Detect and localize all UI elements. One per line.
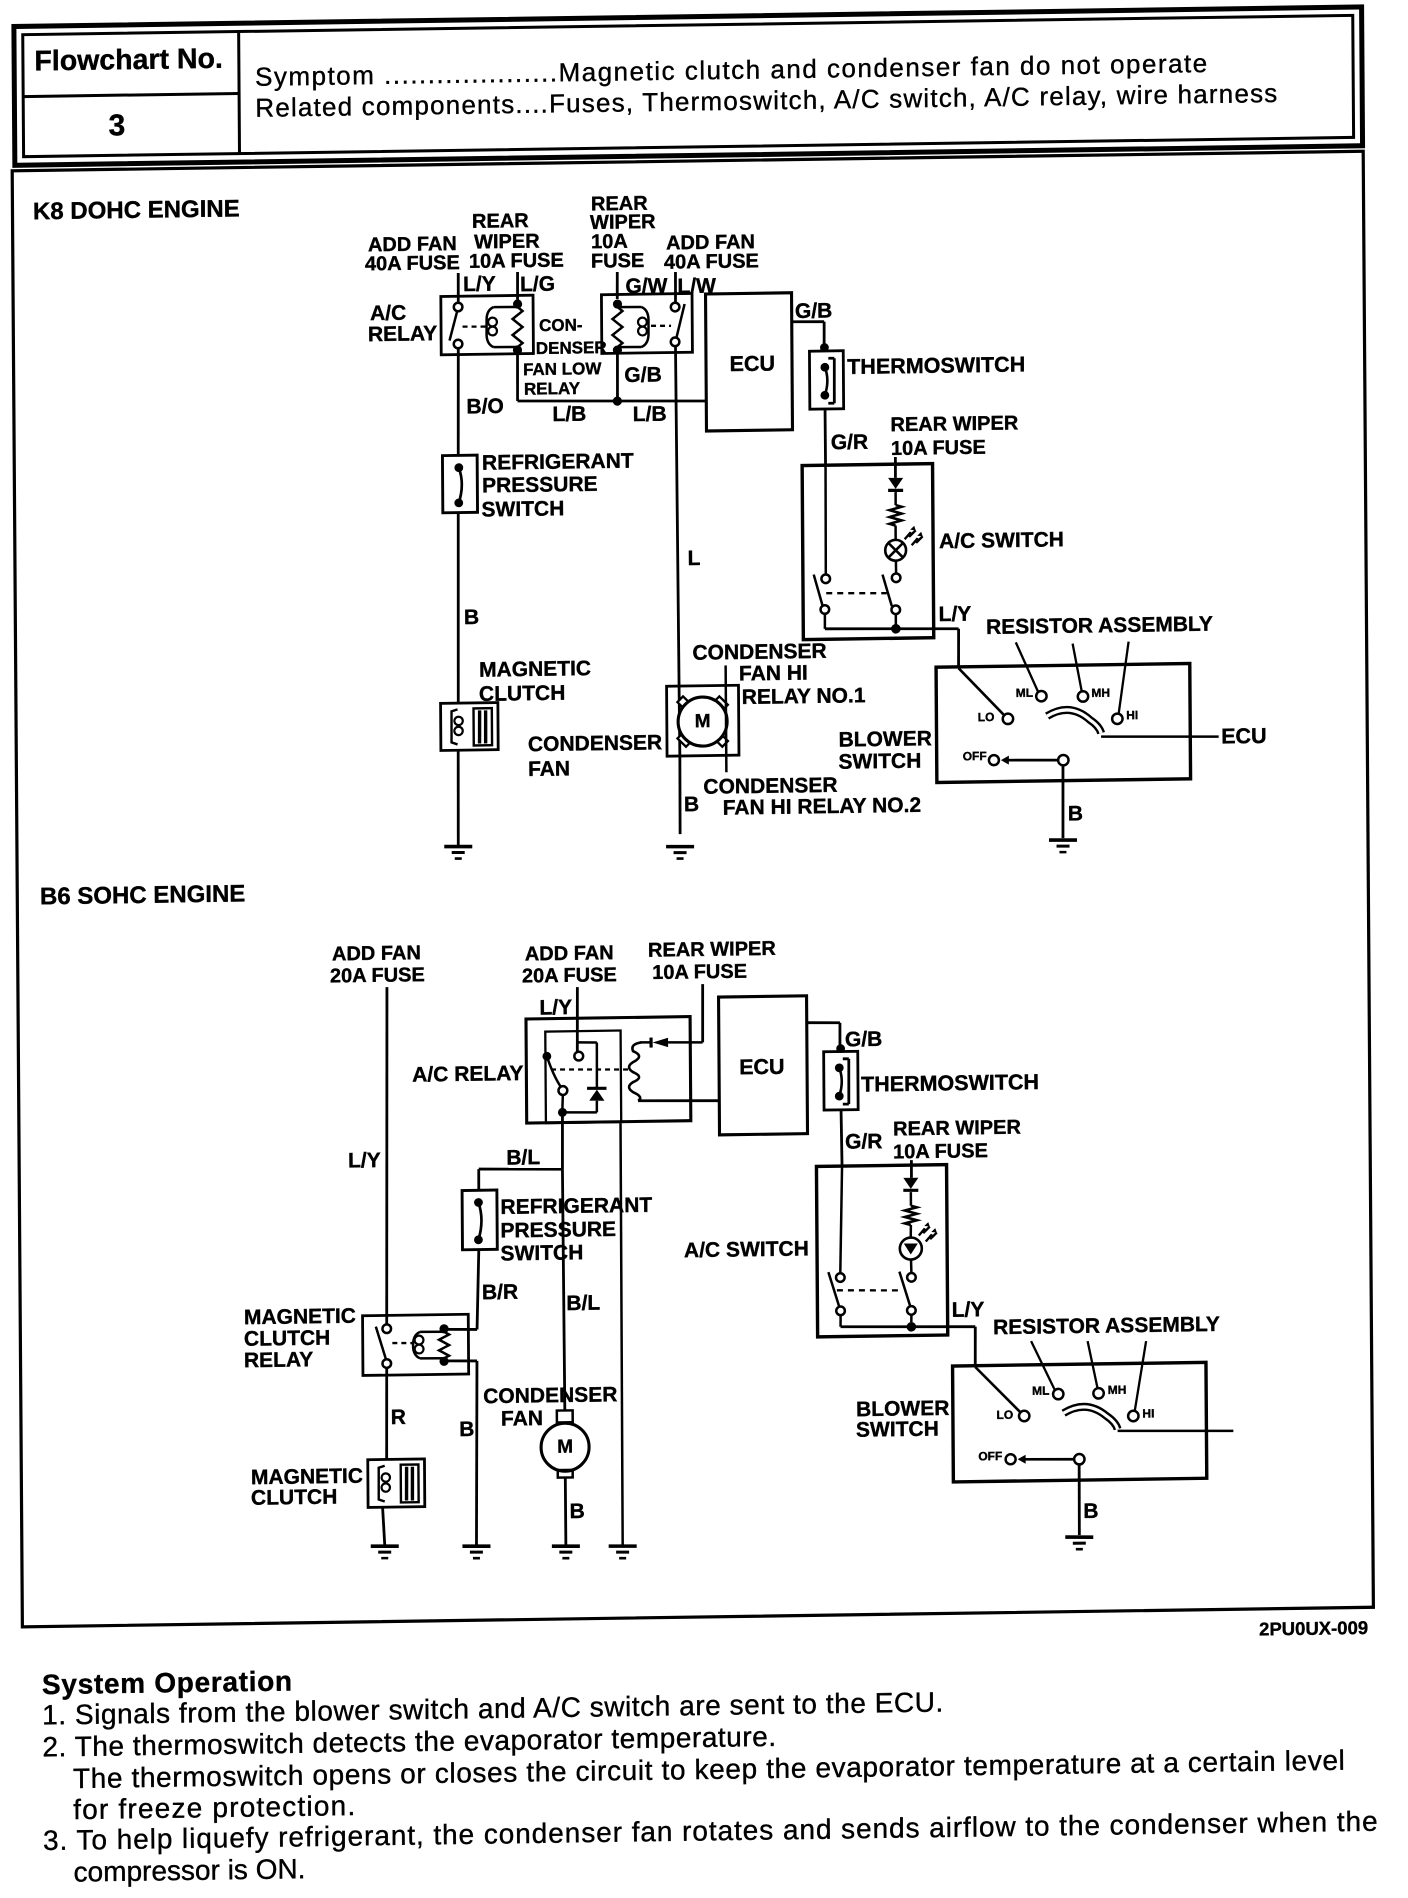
svg-text:FAN: FAN	[501, 1407, 543, 1431]
svg-text:ML: ML	[1032, 1384, 1049, 1398]
svg-text:A/C: A/C	[370, 302, 406, 326]
svg-text:20A FUSE: 20A FUSE	[522, 964, 617, 987]
svg-text:THERMOSWITCH: THERMOSWITCH	[861, 1070, 1039, 1097]
svg-text:ADD FAN: ADD FAN	[332, 942, 421, 965]
svg-text:PRESSURE: PRESSURE	[500, 1218, 616, 1243]
svg-text:L/B: L/B	[633, 403, 667, 426]
svg-text:CON-: CON-	[539, 315, 583, 335]
svg-text:Flowchart No.: Flowchart No.	[34, 43, 223, 78]
svg-text:G/B: G/B	[795, 299, 833, 323]
svg-text:10A FUSE: 10A FUSE	[893, 1140, 988, 1163]
svg-text:SWITCH: SWITCH	[500, 1241, 583, 1265]
svg-text:DENSER: DENSER	[536, 338, 607, 358]
svg-text:ECU: ECU	[1221, 724, 1267, 749]
svg-text:FAN: FAN	[528, 757, 570, 781]
svg-text:G/B: G/B	[624, 363, 662, 387]
svg-text:L/Y: L/Y	[939, 603, 972, 626]
svg-text:10A FUSE: 10A FUSE	[652, 961, 747, 984]
svg-text:THERMOSWITCH: THERMOSWITCH	[847, 352, 1025, 379]
svg-text:L/Y: L/Y	[539, 996, 572, 1019]
svg-text:FAN HI RELAY NO.2: FAN HI RELAY NO.2	[723, 794, 922, 820]
svg-text:HI: HI	[1142, 1406, 1154, 1420]
svg-text:REAR WIPER: REAR WIPER	[648, 938, 776, 962]
svg-text:FAN HI: FAN HI	[739, 662, 808, 686]
svg-text:RESISTOR ASSEMBLY: RESISTOR ASSEMBLY	[986, 613, 1213, 639]
svg-text:RESISTOR ASSEMBLY: RESISTOR ASSEMBLY	[993, 1313, 1220, 1339]
svg-text:REFRIGERANT: REFRIGERANT	[500, 1194, 652, 1219]
svg-text:B/O: B/O	[466, 395, 504, 419]
svg-text:ECU: ECU	[730, 352, 776, 377]
svg-text:B: B	[570, 1500, 585, 1523]
svg-text:L/Y: L/Y	[463, 273, 496, 296]
svg-text:RELAY NO.1: RELAY NO.1	[742, 684, 866, 709]
svg-text:L/Y: L/Y	[348, 1149, 381, 1172]
svg-text:RELAY: RELAY	[244, 1348, 313, 1372]
svg-text:M: M	[557, 1437, 573, 1458]
svg-text:G/B: G/B	[845, 1028, 883, 1052]
svg-text:B: B	[464, 606, 479, 629]
svg-text:ML: ML	[1016, 686, 1033, 700]
svg-text:MH: MH	[1091, 686, 1110, 700]
svg-text:REFRIGERANT: REFRIGERANT	[482, 450, 634, 475]
svg-text:2PU0UX-009: 2PU0UX-009	[1259, 1617, 1368, 1640]
svg-text:L/G: L/G	[520, 273, 555, 297]
svg-text:B/L: B/L	[566, 1292, 600, 1315]
svg-text:REAR WIPER: REAR WIPER	[893, 1117, 1021, 1141]
svg-text:L: L	[687, 547, 700, 570]
svg-text:B: B	[1068, 802, 1083, 825]
svg-text:REAR: REAR	[472, 210, 529, 233]
svg-text:B/R: B/R	[482, 1281, 518, 1305]
svg-text:CLUTCH: CLUTCH	[251, 1486, 337, 1510]
svg-text:10A FUSE: 10A FUSE	[891, 437, 986, 460]
svg-text:A/C RELAY: A/C RELAY	[412, 1062, 523, 1087]
svg-text:REAR WIPER: REAR WIPER	[890, 412, 1018, 436]
svg-text:B6 SOHC ENGINE: B6 SOHC ENGINE	[40, 880, 246, 910]
svg-text:PRESSURE: PRESSURE	[482, 473, 598, 498]
svg-text:CONDENSER: CONDENSER	[528, 731, 662, 756]
svg-text:RELAY: RELAY	[524, 379, 581, 399]
svg-text:for freeze protection.: for freeze protection.	[73, 1790, 356, 1825]
svg-text:FAN LOW: FAN LOW	[523, 359, 602, 379]
svg-text:B: B	[459, 1418, 474, 1441]
svg-text:B/L: B/L	[506, 1146, 540, 1169]
svg-text:HI: HI	[1126, 708, 1138, 722]
svg-text:CONDENSER: CONDENSER	[483, 1383, 617, 1408]
svg-text:LO: LO	[996, 1408, 1013, 1422]
svg-text:B: B	[684, 793, 699, 816]
svg-text:ADD FAN: ADD FAN	[525, 942, 614, 965]
svg-text:3: 3	[108, 109, 125, 142]
svg-text:System Operation: System Operation	[42, 1666, 293, 1701]
svg-text:40A FUSE: 40A FUSE	[365, 252, 460, 275]
svg-text:G/R: G/R	[845, 1130, 883, 1154]
svg-text:A/C SWITCH: A/C SWITCH	[684, 1237, 809, 1262]
svg-text:K8 DOHC ENGINE: K8 DOHC ENGINE	[33, 195, 240, 225]
svg-text:M: M	[695, 711, 711, 732]
svg-text:L/B: L/B	[552, 403, 586, 426]
svg-text:RELAY: RELAY	[368, 322, 437, 346]
svg-text:LO: LO	[978, 710, 995, 724]
svg-text:R: R	[391, 1406, 406, 1429]
svg-text:CLUTCH: CLUTCH	[244, 1327, 330, 1351]
svg-text:OFF: OFF	[978, 1449, 1002, 1463]
svg-text:OFF: OFF	[963, 749, 987, 763]
svg-text:B: B	[1083, 1500, 1098, 1523]
svg-text:MAGNETIC: MAGNETIC	[244, 1305, 356, 1330]
svg-text:ECU: ECU	[739, 1055, 785, 1080]
svg-text:40A FUSE: 40A FUSE	[664, 250, 759, 273]
svg-text:SWITCH: SWITCH	[838, 750, 921, 774]
svg-text:BLOWER: BLOWER	[838, 727, 931, 751]
svg-text:G/R: G/R	[831, 431, 869, 455]
svg-text:MH: MH	[1108, 1383, 1127, 1397]
svg-text:SWITCH: SWITCH	[481, 497, 564, 521]
svg-text:FUSE: FUSE	[591, 250, 644, 273]
svg-text:10A FUSE: 10A FUSE	[469, 250, 564, 273]
svg-text:MAGNETIC: MAGNETIC	[479, 657, 591, 682]
svg-text:20A FUSE: 20A FUSE	[330, 964, 425, 987]
svg-text:compressor is ON.: compressor is ON.	[74, 1853, 306, 1887]
svg-text:L/Y: L/Y	[952, 1298, 985, 1321]
svg-text:SWITCH: SWITCH	[856, 1418, 939, 1442]
svg-text:A/C SWITCH: A/C SWITCH	[939, 528, 1064, 553]
